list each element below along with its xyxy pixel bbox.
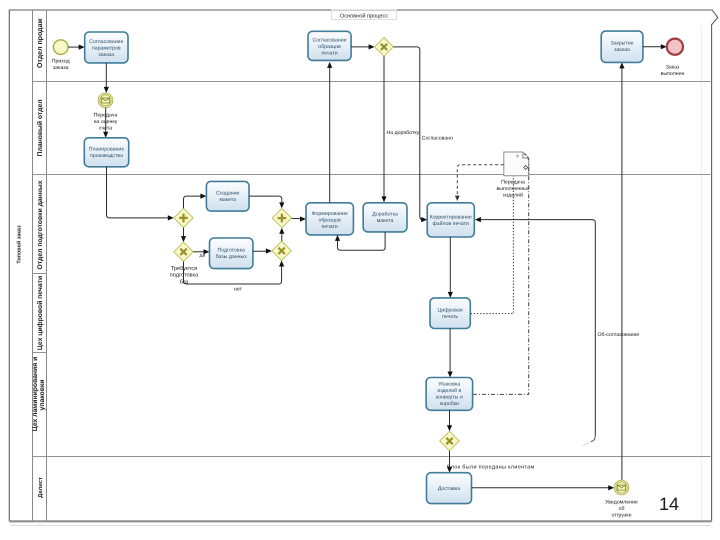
task Корректирование файлов печати: [427, 203, 474, 237]
task Планирование производства: [84, 138, 128, 167]
message event Уведомление об отгрузке: [605, 480, 638, 518]
exclusive gateway right: [272, 241, 291, 260]
lane boundary 4/5 (header only): [33, 352, 47, 354]
svg-text:Планирование: Планирование: [89, 147, 125, 153]
sequence flow Подготовка -> exclusive gateway right: [253, 248, 272, 253]
svg-text:отгрузке: отгрузке: [611, 513, 631, 519]
lane boundary 3/4 (header only): [33, 273, 47, 275]
task Закрытие заказа: [601, 31, 643, 62]
svg-text:базы данных: базы данных: [216, 254, 248, 260]
svg-text:макета: макета: [377, 218, 394, 224]
svg-text:печати: печати: [322, 224, 338, 230]
sequence flow Планирование -> parallel gateway: [107, 167, 174, 221]
sequence flow Создание макета -> parallel gateway 2: [249, 196, 284, 208]
sequence flow gateway1 -> exclusive gateway left: [181, 228, 186, 243]
data object (document with fold): [497, 152, 530, 199]
task Согласование образцов печати: [308, 31, 351, 60]
sequence flow Упаковка -> exclusive gateway bottom: [447, 410, 452, 431]
task Создание макета: [206, 181, 249, 211]
svg-text:Согласование: Согласование: [312, 38, 346, 44]
svg-text:об: об: [619, 506, 625, 512]
svg-text:да: да: [200, 253, 206, 259]
svg-text:Делист: Делист: [38, 477, 44, 498]
lane header separator: [46, 10, 48, 521]
svg-text:Типовой заказ: Типовой заказ: [16, 225, 23, 264]
lane boundary 5/6: [33, 456, 711, 458]
association (dash-dot) Упаковка -> data object: [473, 154, 529, 395]
svg-text:подготовка: подготовка: [170, 273, 199, 279]
svg-text:Заказ: Заказ: [666, 65, 680, 71]
svg-text:Согласование: Согласование: [89, 39, 123, 45]
association (dotted) Цифровая печать -> data object: [471, 176, 514, 314]
svg-text:Доставка: Доставка: [438, 486, 460, 492]
svg-text:Создание: Создание: [216, 191, 240, 197]
start event Приход заказа: [52, 40, 70, 71]
sequence flow На доработку (gw bottom -> Доработка макета): [381, 56, 419, 202]
svg-text:выполнен: выполнен: [661, 71, 685, 77]
svg-text:файлов печати: файлов печати: [432, 221, 469, 227]
parallel gateway 2: [272, 208, 291, 227]
pool header separator: [32, 10, 34, 521]
sequence flow return (hook) -> Корректирование right: [475, 217, 595, 446]
svg-text:нет: нет: [234, 287, 243, 293]
svg-text:печать: печать: [442, 314, 458, 320]
svg-text:производства: производства: [90, 153, 123, 159]
svg-text:На доработку: На доработку: [387, 130, 420, 136]
title frame: [332, 10, 397, 20]
sequence flow task1 -> message event: [104, 63, 109, 93]
sequence flow start -> task1: [68, 45, 84, 50]
svg-text:заказа: заказа: [614, 47, 630, 53]
svg-text:Блок были переданы клиентам: Блок были переданы клиентам: [447, 465, 535, 471]
svg-text:Об-согласование: Об-согласование: [598, 332, 640, 338]
task Доработка макета: [363, 203, 407, 232]
lane boundary 2/3: [33, 174, 711, 176]
svg-text:Закрытие: Закрытие: [610, 41, 633, 47]
svg-text:изделий в: изделий в: [437, 388, 461, 394]
sequence flow Формирование -> Согласование образцов (up): [327, 62, 332, 203]
sequence flow message event 2 -> Закрытие заказа (long up): [619, 62, 624, 480]
svg-text:Отдел подготовки данных: Отдел подготовки данных: [37, 180, 44, 269]
association (dashed) data object -> Корректирование: [455, 165, 504, 201]
end event Заказ выполнен: [661, 39, 685, 77]
svg-text:коробки: коробки: [440, 401, 459, 407]
svg-text:Формирование: Формирование: [312, 211, 348, 217]
svg-text:печати: печати: [321, 51, 337, 57]
sequence flow message event -> Планирование: [103, 108, 108, 138]
exclusive gateway bottom: [440, 431, 460, 451]
task Доставка: [427, 473, 472, 504]
sequence flow gwX right -> parallel gateway 2: [279, 228, 284, 241]
sequence flow Согласовано (gw right -> Корректирование left): [393, 47, 453, 222]
svg-text:макета: макета: [219, 197, 236, 203]
sequence flow gateway bottom -> Доставка: [447, 451, 452, 473]
svg-text:Уведомление: Уведомление: [605, 500, 638, 506]
svg-text:Упаковка: Упаковка: [438, 382, 460, 388]
svg-text:14: 14: [659, 494, 679, 514]
task Цифровая печать: [430, 298, 470, 329]
svg-text:заказа: заказа: [53, 65, 69, 71]
svg-text:Цифровая: Цифровая: [438, 308, 463, 314]
sequence flow Корректирование -> Цифровая печать: [448, 237, 453, 298]
svg-text:образцов: образцов: [318, 44, 341, 50]
svg-text:параметров: параметров: [92, 46, 121, 52]
sequence flow Доработка -> Формирование (loop): [335, 232, 385, 250]
sequence flow Цифровая печать -> Упаковка: [448, 329, 453, 378]
task Подготовка базы данных: [210, 238, 253, 269]
message event Передача (lane 2): [94, 93, 118, 131]
svg-text:Корректирование: Корректирование: [430, 215, 472, 221]
sequence flow Закрытие -> end event: [643, 44, 667, 49]
sequence flow gwX left -> Подготовка базы данных: [193, 249, 209, 258]
svg-text:Приход: Приход: [52, 59, 70, 65]
task Упаковка изделий в конверты и коробки: [426, 378, 473, 411]
pool faint crease (right): [700, 25, 702, 520]
svg-text:Основной процесс: Основной процесс: [340, 12, 388, 19]
pool bottom shadow: [10, 524, 711, 526]
svg-text:Доработка: Доработка: [372, 212, 398, 218]
sequence flow нет loop (gwX left bottom -> gwX right bottom): [184, 261, 285, 293]
svg-text:упаковки: упаковки: [39, 380, 46, 411]
svg-text:Подготовка: Подготовка: [218, 248, 245, 254]
exclusive gateway left (Требуется подготовка баз): [170, 242, 199, 285]
svg-text:Цех цифровой печати: Цех цифровой печати: [36, 276, 44, 350]
parallel gateway 1: [174, 208, 193, 227]
svg-text:конверты и: конверты и: [436, 395, 463, 401]
svg-text:Отдел продаж: Отдел продаж: [37, 18, 44, 69]
pool bottom thick line: [9, 520, 711, 522]
svg-text:Согласовано: Согласовано: [422, 136, 453, 142]
sequence flow gateway2 -> Формирование образцов: [292, 216, 306, 221]
svg-text:Плановый отдел: Плановый отдел: [36, 99, 44, 156]
sequence flow Доставка -> message event 2: [472, 485, 615, 490]
exclusive gateway lane1 (approval): [375, 38, 394, 57]
lane boundary 1/2: [33, 81, 711, 83]
task Согласование параметров заказа: [85, 32, 128, 63]
svg-text:заказа: заказа: [98, 52, 114, 58]
svg-text:образцов: образцов: [318, 218, 341, 224]
sequence flow gateway1 -> Создание макета: [184, 194, 207, 209]
sequence flow Согласование образцов -> gwX lane1: [351, 44, 375, 49]
task Формирование образцов печати: [306, 203, 353, 235]
